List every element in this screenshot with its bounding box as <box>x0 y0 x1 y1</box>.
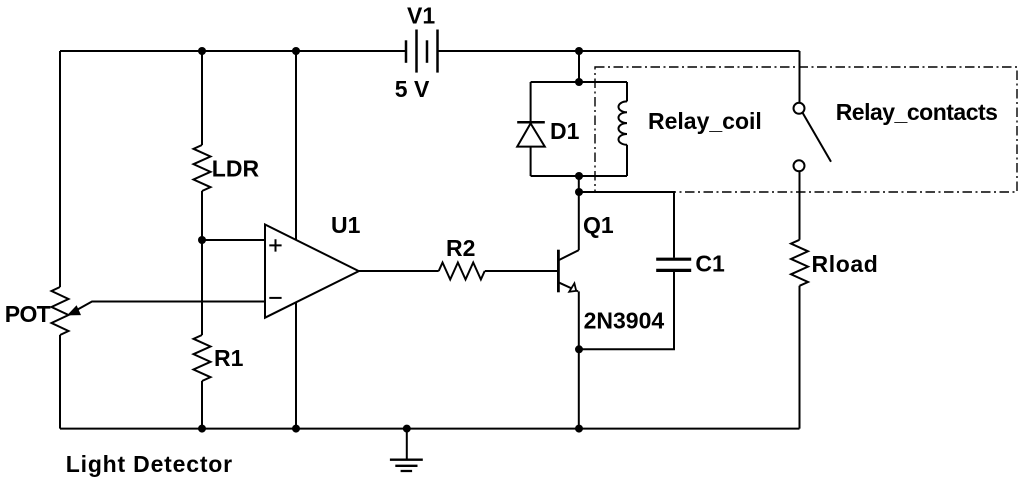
wire relay coil top lead <box>626 82 628 101</box>
wire left rail lower <box>59 335 61 429</box>
resistor Rload body <box>791 240 808 286</box>
svg-text:R1: R1 <box>214 345 244 371</box>
junction collector C1 <box>575 188 583 196</box>
wire Q1 emitter down <box>578 291 580 428</box>
svg-text:R2: R2 <box>446 235 475 261</box>
wire C1 bottom <box>579 272 674 349</box>
wire D1 bottom lead <box>530 147 532 176</box>
svg-text:C1: C1 <box>695 251 725 277</box>
junction top bus at op-amp rail <box>292 47 300 55</box>
wire Rload to bottom bus <box>799 286 801 429</box>
transistor Q1 collector diagonal <box>559 250 579 260</box>
wire bottom bus <box>60 428 800 430</box>
wire R1 to bottom bus <box>201 381 203 429</box>
junction D1 coil top <box>575 78 583 86</box>
junction top bus at LDR branch <box>198 47 206 55</box>
ground stub wire <box>406 429 408 459</box>
inductor Relay_coil body <box>618 101 627 144</box>
diode D1 triangle <box>517 123 545 146</box>
resistor R2 body <box>439 263 485 280</box>
svg-text:2N3904: 2N3904 <box>584 308 665 334</box>
svg-text:D1: D1 <box>550 118 580 144</box>
svg-text:Q1: Q1 <box>583 212 614 238</box>
wire op-amp noninverting input <box>202 239 265 241</box>
transistor Q1 emitter diagonal <box>558 282 578 291</box>
transistor Q1 base bar <box>557 250 560 293</box>
wire op-amp inverting input to POT wiper <box>70 302 265 314</box>
wire C1 top <box>579 192 674 258</box>
wire left rail upper <box>59 51 61 287</box>
svg-text:Relay_coil: Relay_coil <box>648 108 762 134</box>
junction bottom bus at emitter <box>575 425 583 433</box>
wire D1 top lead <box>530 82 532 122</box>
wire node to R1 <box>201 240 203 335</box>
junction top bus at relay branch <box>575 47 583 55</box>
wire R2 to Q1 base <box>485 270 557 272</box>
relay contact lower terminal circle <box>794 160 805 171</box>
resistor LDR body <box>194 145 211 191</box>
transistor Q1 emitter arrowhead <box>569 283 576 292</box>
junction emitter C1 <box>575 345 583 353</box>
relay contact upper terminal circle <box>794 103 805 114</box>
wire op-amp output <box>359 270 439 272</box>
junction bottom bus at op-amp rail <box>292 425 300 433</box>
junction D1 coil bottom <box>575 172 583 180</box>
wire top bus left segment <box>60 50 406 52</box>
svg-text:LDR: LDR <box>212 155 260 181</box>
svg-text:Relay_contacts: Relay_contacts <box>836 99 998 125</box>
battery V1 long plate 1 <box>415 30 418 73</box>
wire D1 coil bottom <box>531 175 627 177</box>
junction LDR R1 node <box>198 236 206 244</box>
battery V1 short plate 2 <box>426 40 429 63</box>
op-amp U1 minus input symbol <box>269 297 281 299</box>
capacitor C1 bottom plate <box>656 269 691 272</box>
wire relay contacts to Rload <box>799 171 801 240</box>
capacitor C1 top plate <box>656 258 691 261</box>
wire LDR to node <box>201 191 203 240</box>
relay boundary box <box>595 67 1017 192</box>
wire LDR branch top <box>201 51 203 145</box>
junction bottom bus at R1 <box>198 425 206 433</box>
resistor R1 body <box>194 335 211 381</box>
svg-text:V1: V1 <box>407 3 435 29</box>
ground symbol <box>390 460 423 471</box>
junction bottom bus at ground <box>403 425 411 433</box>
potentiometer POT body <box>52 287 69 335</box>
diode D1 cathode bar <box>517 121 545 124</box>
wire top bus right segment <box>438 50 800 52</box>
svg-text:POT: POT <box>5 301 51 327</box>
op-amp U1 triangle <box>265 225 359 318</box>
relay contact blade <box>803 113 832 162</box>
battery V1 short plate 1 <box>405 40 408 63</box>
op-amp U1 plus input symbol <box>269 239 281 251</box>
svg-text:Light Detector: Light Detector <box>66 451 233 477</box>
wire top bus drop to relay contacts <box>799 51 801 103</box>
svg-text:U1: U1 <box>331 212 361 238</box>
wire collector node to top bus <box>578 51 580 82</box>
battery V1 long plate 2 <box>436 30 439 73</box>
wire op-amp vertical rail <box>295 51 297 429</box>
potentiometer POT wiper arrowhead <box>67 305 81 315</box>
wire D1 coil top <box>531 81 627 83</box>
svg-text:5 V: 5 V <box>395 76 430 102</box>
wire Q1 collector up <box>578 176 580 250</box>
svg-text:Rload: Rload <box>812 251 879 277</box>
wire relay coil bottom lead <box>626 145 628 176</box>
